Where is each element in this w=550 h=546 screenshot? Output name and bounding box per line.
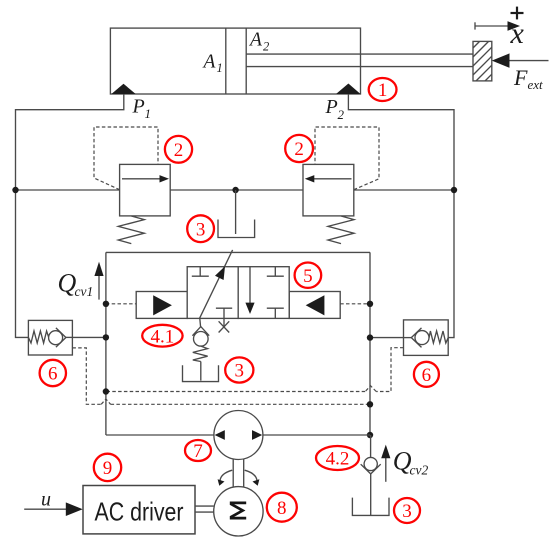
svg-text:2: 2	[174, 140, 184, 161]
tank 3 middle stub	[235, 190, 237, 234]
cv6 right pilot dashed to left bus	[106, 391, 365, 393]
label 9	[94, 454, 121, 481]
svg-text:P: P	[132, 96, 145, 118]
svg-text:3: 3	[196, 219, 206, 240]
Qcv2 arrow	[385, 458, 387, 482]
wire left bus down	[16, 190, 29, 337]
wire manifold to cv6 right	[370, 337, 404, 339]
check valve 4.1 spring	[193, 346, 208, 361]
svg-text:6: 6	[422, 365, 432, 386]
check valve 6 right seat	[411, 328, 421, 348]
cv6 right pilot dashed	[376, 348, 403, 392]
svg-text:3: 3	[235, 361, 245, 382]
label 8	[267, 493, 297, 522]
svg-text:A: A	[202, 52, 216, 73]
check valve 6 left spring	[28, 331, 48, 343]
valve 2 left pilot dashed	[94, 127, 158, 190]
svg-text:ext: ext	[528, 77, 544, 92]
port P1 triangle	[111, 84, 135, 94]
pump shaft	[232, 459, 234, 487]
cylinder piston	[225, 28, 227, 94]
wire main line y190	[16, 189, 120, 191]
label 2 left	[165, 136, 192, 163]
valve 5 blocked port top left	[199, 267, 201, 277]
valve 5 diagonal flow arrow	[200, 250, 233, 319]
pump line right	[263, 434, 370, 436]
manifold right line	[369, 252, 371, 435]
svg-text:1: 1	[217, 61, 223, 75]
AC driver double line	[195, 505, 214, 507]
tank 3 under 4.1	[183, 365, 219, 381]
valve 5 plugged drain X	[223, 318, 225, 327]
x axis arrow	[475, 21, 520, 31]
check valve 6 left ball	[49, 331, 63, 345]
label 5	[295, 263, 322, 288]
tank 3 middle	[218, 220, 255, 238]
svg-text:cv1: cv1	[75, 284, 94, 299]
svg-text:cv2: cv2	[410, 463, 429, 478]
valve 5 blocked port bottom left	[223, 308, 225, 318]
svg-text:2: 2	[338, 107, 345, 122]
F_ext arrow	[492, 53, 549, 67]
cylinder rod	[246, 53, 473, 55]
label 4.1	[142, 325, 182, 347]
label 3 middle	[187, 215, 214, 242]
check valve 6 right box	[404, 320, 449, 356]
wire P2 to right bus	[348, 94, 454, 190]
svg-text:F: F	[513, 65, 528, 90]
svg-text:AC driver: AC driver	[95, 497, 184, 527]
valve 2 left arrow	[122, 178, 161, 180]
rotation arrow left	[220, 470, 232, 481]
valve 5 position boxes	[187, 267, 238, 319]
cv6 left pilot dashed	[72, 348, 101, 404]
wire P1 to left bus	[16, 94, 124, 190]
svg-text:2: 2	[294, 139, 304, 160]
motor M glyph	[230, 503, 246, 518]
valve 5 pilot dashed left	[106, 303, 136, 305]
svg-text:9: 9	[103, 458, 113, 479]
svg-text:4.2: 4.2	[326, 449, 350, 470]
label 3 under 4.1	[225, 357, 253, 382]
tank 3 bottom right	[352, 498, 389, 516]
check valve 4.2 ball	[364, 457, 377, 470]
svg-text:A: A	[248, 30, 262, 51]
valve 2 right arrow	[313, 178, 352, 180]
valve 2 right spring	[328, 216, 354, 244]
svg-text:5: 5	[303, 266, 313, 287]
check valve 4.2 seat	[361, 464, 381, 474]
load block hatched	[473, 41, 492, 81]
check valve 6 right spring	[429, 331, 448, 343]
port P2 triangle	[336, 84, 361, 95]
pump line left	[106, 434, 214, 436]
cv6 right pilot hop	[365, 386, 376, 392]
manifold left line	[105, 252, 107, 435]
svg-text:8: 8	[277, 498, 287, 519]
check valve 4.1 tank line	[200, 362, 202, 381]
pump 7 circle	[214, 411, 263, 460]
valve 5 pilot dashed right	[340, 303, 370, 305]
AC driver 9 box	[83, 486, 195, 534]
valve 2 left spring	[118, 216, 144, 244]
label 3 bottom right	[394, 498, 420, 523]
cylinder 1 barrel	[110, 28, 360, 94]
check valve 4.1 seat	[192, 327, 209, 336]
cv6 left pilot dashed to right bus	[111, 403, 370, 405]
svg-text:1: 1	[145, 106, 152, 121]
label 6 right	[414, 362, 439, 387]
wire right bus down	[448, 190, 454, 338]
valve 5 right pilot box	[289, 292, 340, 319]
valve 5 blocked port bottom right	[274, 308, 276, 318]
label 2 right	[285, 135, 313, 162]
wire cv6 left to manifold	[72, 336, 106, 338]
u input arrow	[24, 508, 67, 510]
Qcv1 arrow	[98, 275, 100, 300]
label 7	[185, 440, 211, 461]
check valve 6 right ball	[415, 331, 429, 345]
rotation arrow right	[245, 470, 257, 481]
svg-text:3: 3	[402, 501, 412, 522]
valve 2 right pilot dashed	[315, 127, 379, 190]
svg-text:x: x	[510, 17, 525, 50]
valve 2 right box	[303, 164, 354, 216]
label 1	[369, 78, 397, 101]
svg-text:6: 6	[48, 364, 58, 385]
svg-text:2: 2	[263, 40, 269, 54]
label 4.2	[316, 446, 359, 470]
svg-text:1: 1	[378, 80, 388, 101]
svg-text:u: u	[41, 489, 51, 511]
valve 2 left box	[120, 164, 171, 216]
plus sign	[511, 7, 524, 20]
manifold top line	[106, 251, 370, 253]
valve 5 down flow arrow	[249, 267, 251, 311]
valve 5 left pilot box	[136, 292, 187, 319]
check valve 6 left box	[28, 320, 72, 355]
check valve 6 left seat	[56, 328, 66, 347]
check valve 4.1 stub	[199, 318, 202, 327]
svg-text:4.1: 4.1	[151, 326, 175, 347]
motor 8 circle	[214, 487, 263, 536]
check valve 4.2 tank line	[370, 474, 372, 515]
valve 5 blocked port top right	[274, 267, 276, 277]
check valve 4.2 stub	[370, 435, 372, 457]
label 6 left	[40, 360, 66, 386]
check valve 4.1 ball	[194, 332, 209, 347]
node dots manifold	[103, 301, 109, 307]
node junction dots	[12, 187, 18, 193]
cv6 left pilot hop	[101, 399, 110, 404]
svg-text:P: P	[325, 96, 338, 118]
svg-text:7: 7	[193, 441, 203, 462]
